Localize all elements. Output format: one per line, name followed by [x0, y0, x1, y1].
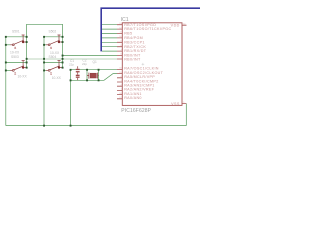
pushbutton S504: [44, 55, 63, 80]
wire RB0 net from left switch column to pin: [27, 58, 117, 60]
svg-text:10-XX: 10-XX: [52, 76, 62, 80]
wire mid ground rail: [43, 37, 45, 126]
svg-text:S504: S504: [49, 55, 57, 59]
bus B1: [101, 7, 200, 51]
IC1 right pin names VDD VSS: [171, 23, 180, 105]
wire bridge over row1 linking right rails: [27, 24, 63, 37]
wire bottom ground rail: [6, 125, 187, 127]
pushbutton S502: [44, 30, 63, 56]
svg-text:S501: S501: [12, 30, 20, 34]
junctions in oscillator area: [70, 69, 100, 127]
svg-text:RB1/RX/DT: RB1/RX/DT: [124, 49, 147, 53]
svg-text:RA0/AN0: RA0/AN0: [124, 96, 142, 100]
svg-text:22p: 22p: [69, 63, 74, 67]
IC1 left pin stubs: [117, 25, 122, 99]
capacitor C2: [76, 59, 88, 81]
svg-text:10-XX: 10-XX: [18, 75, 28, 79]
svg-text:RB6/T1OSO/T1CKI/PGC: RB6/T1OSO/T1CKI/PGC: [124, 27, 171, 31]
junctions on left ground rail: [5, 36, 7, 72]
svg-text:RB3/CCP1: RB3/CCP1: [124, 40, 145, 44]
svg-text:RB7/T1OSI/PGD: RB7/T1OSI/PGD: [124, 23, 156, 27]
faint artifact mark: [142, 63, 145, 66]
wire left ground rail: [5, 37, 7, 126]
svg-text:S503: S503: [11, 55, 19, 59]
junctions on column1 right rail: [26, 36, 28, 69]
IC1 pin numbers right: [183, 23, 186, 103]
pushbutton S501: [6, 30, 27, 55]
wire right rail column 1: [26, 37, 28, 68]
svg-text:VDD: VDD: [171, 23, 180, 27]
svg-text:RB5: RB5: [124, 32, 132, 36]
svg-text:PIC16F628P: PIC16F628P: [121, 108, 151, 114]
svg-text:Q1: Q1: [93, 60, 97, 64]
wire right rail column 2: [62, 37, 64, 68]
pushbutton S503: [6, 55, 28, 79]
wire top row2 cell1: [6, 61, 27, 63]
wire crystal right lead riser: [98, 70, 100, 81]
svg-text:RB4/PGM: RB4/PGM: [124, 36, 143, 40]
svg-text:S502: S502: [49, 30, 57, 34]
svg-text:VSS: VSS: [171, 102, 180, 106]
wire top row1 cell2: [44, 36, 63, 38]
wire OSC1 net: [71, 69, 118, 71]
wire VSS to ground rail: [185, 104, 187, 126]
svg-text:22p: 22p: [82, 62, 87, 66]
wire oscillator ground drop: [70, 70, 72, 126]
junctions on column2 right rail: [62, 36, 64, 69]
wire top row1 cell1: [6, 36, 27, 38]
wire RB1 net from switches to pin: [63, 54, 118, 56]
svg-text:RB0/INT: RB0/INT: [124, 57, 141, 61]
svg-text:RB2/TX/CK: RB2/TX/CK: [124, 45, 146, 49]
net wires from bus to RB pins: [102, 25, 117, 51]
IC1 right pin stubs: [182, 25, 187, 103]
wire crystal left lead riser: [86, 70, 88, 81]
ic IC1 body: [122, 23, 182, 106]
capacitor C1: [69, 59, 80, 74]
IC1 pin numbers left: [119, 23, 122, 99]
wire OSC2 net with diagonal to RA6: [71, 74, 118, 81]
crystal Q1: [87, 60, 99, 79]
wire top row2 cell2: [44, 61, 63, 63]
IC1 left pin names: [124, 23, 171, 100]
junctions on mid ground rail: [43, 36, 45, 127]
